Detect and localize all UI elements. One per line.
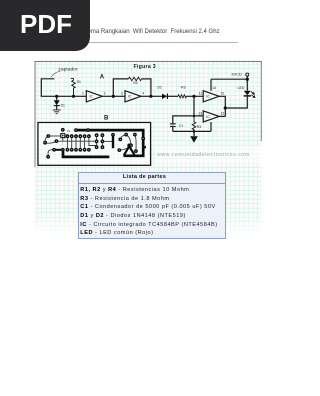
svg-text:2: 2 [104,92,106,96]
svg-text:A: A [100,75,105,81]
svg-text:R3: R3 [181,86,185,90]
svg-text:Figura 3: Figura 3 [133,64,155,70]
svg-text:13: 13 [198,112,202,116]
svg-text:R4: R4 [197,125,202,129]
svg-text:1: 1 [82,92,84,96]
svg-text:D1: D1 [67,129,71,133]
svg-text:IC: IC [206,95,210,99]
svg-text:D1: D1 [61,104,65,108]
svg-text:C1: C1 [179,124,184,128]
svg-text:4: 4 [142,92,144,96]
svg-text:IC: IC [90,95,94,99]
svg-text:R1: R1 [77,80,81,84]
svg-text:10: 10 [221,92,225,96]
svg-text:R2: R2 [133,81,137,85]
svg-text:11: 11 [199,92,203,96]
svg-text:captador: captador [59,66,79,71]
svg-text:IC: IC [206,115,210,119]
svg-text:www.comunidadelectronicos.com: www.comunidadelectronicos.com [157,152,250,158]
svg-text:LED: LED [238,86,245,90]
svg-text:IC: IC [128,95,132,99]
svg-text:14: 14 [212,86,216,90]
svg-text:D2: D2 [158,86,162,90]
svg-text:3: 3 [121,92,123,96]
svg-text:B: B [104,116,109,122]
svg-text:12: 12 [221,112,225,116]
svg-text:3VCD: 3VCD [231,72,242,77]
